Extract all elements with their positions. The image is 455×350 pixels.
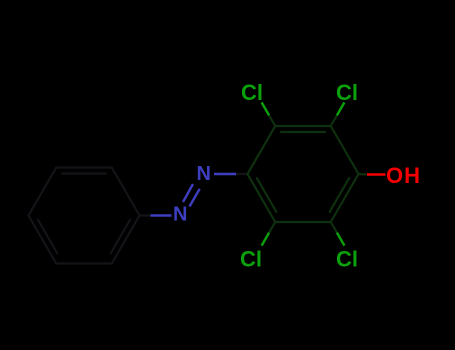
wire: C-Cl bond bottom-left (chlorine half green) [262, 233, 270, 246]
wire: bond left-ring to lower N (carbon half, dark) [140, 214, 151, 216]
wire: right ring double bond inner line top [281, 131, 325, 133]
svg-text:Cl: Cl [336, 80, 358, 105]
wire: C-Cl bond bottom-left (carbon half dark) [269, 222, 275, 233]
wire: C-O bond (carbon half dark) [359, 173, 367, 176]
wire: bond upper N to right ring (nitrogen half, blue) [214, 173, 236, 175]
wire: left ring double bond inner line top [62, 172, 106, 174]
svg-text:OH: OH [386, 163, 421, 188]
wire: right ring double bond inner line lower-right [330, 178, 349, 212]
wire: C-Cl bond bottom-right (chlorine half green) [337, 233, 345, 246]
wire: C-Cl bond bottom-right (carbon half dark) [331, 222, 337, 233]
wire: azo N=N double bond line 2 [190, 189, 200, 207]
svg-text:N: N [197, 163, 211, 185]
wire: right ring hexagon [248, 126, 359, 222]
wire: bond left-ring to lower N (nitrogen half, blue) [151, 214, 172, 216]
right tetrachlorophenol ring (dark green carbon bonds) [248, 126, 359, 222]
wire: right ring double bond inner line lower-left [257, 178, 276, 212]
left phenyl ring (dark carbon bonds) [29, 168, 140, 264]
wire: bond upper N to right ring (carbon half, dark) [236, 173, 248, 175]
wire: left ring double bond inner line lower-right [111, 220, 130, 254]
wire: left ring double bond inner line lower-left [38, 220, 57, 254]
wire: C-Cl bond top-right (chlorine half green) [337, 102, 345, 115]
svg-text:N: N [173, 204, 187, 226]
wire: azo N=N double bond line 1 [183, 184, 193, 202]
svg-text:Cl: Cl [241, 80, 263, 105]
svg-text:Cl: Cl [240, 247, 262, 272]
wire: C-Cl bond top-left (carbon half dark) [269, 115, 275, 126]
svg-text:Cl: Cl [336, 247, 358, 272]
wire: C-O bond (oxygen half red) [367, 173, 386, 176]
wire: C-Cl bond top-left (chlorine half green) [262, 102, 270, 115]
wire: left ring hexagon [29, 168, 140, 264]
wire: C-Cl bond top-right (carbon half dark) [331, 115, 337, 126]
